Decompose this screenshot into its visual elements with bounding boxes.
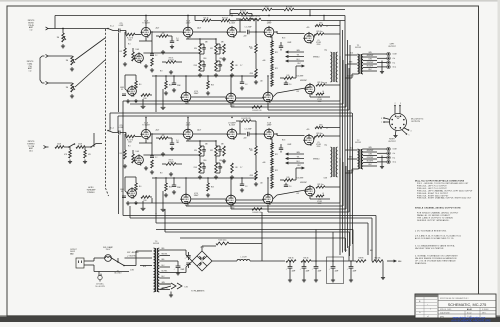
svg-text:R15 1K: R15 1K <box>203 17 208 19</box>
svg-text:S.1-2: S.1-2 <box>110 127 114 129</box>
divider resistor R49 <box>356 257 366 262</box>
resistor R6 at V1C <box>135 81 142 89</box>
resistor R44 <box>223 146 226 156</box>
svg-text:15K: 15K <box>235 167 238 169</box>
coupling capacitor C2 <box>150 54 158 57</box>
wire feedback loop R4 <box>268 170 349 212</box>
wire feedback loop L1 <box>123 56 340 104</box>
svg-text:R12: R12 <box>210 150 213 152</box>
ground below R33 <box>123 164 127 168</box>
driver tube V8B <box>262 193 273 205</box>
title block revision table <box>415 294 438 318</box>
svg-text:+26V: +26V <box>243 137 247 139</box>
cathode resistor R22 <box>165 76 172 89</box>
svg-text:WHT: WHT <box>297 63 300 65</box>
cathode resistor R34 <box>132 154 138 163</box>
fuse F1 10 amp 250V <box>103 246 114 261</box>
voltage callouts L <box>128 27 319 108</box>
resistor R105 250K <box>76 144 85 149</box>
svg-text:50 - 60 CPS: 50 - 60 CPS <box>95 286 105 288</box>
tube V6A 12AU7 <box>182 121 193 140</box>
wire V1 column L <box>125 32 152 53</box>
resistor R36 at V1C <box>135 183 142 191</box>
svg-text:40MF: 40MF <box>353 271 357 273</box>
svg-text:C.8: C.8 <box>245 84 247 86</box>
svg-text:0.5MF: 0.5MF <box>119 25 124 27</box>
wire R kt88 links <box>309 134 340 199</box>
divider resistor R46 <box>286 257 296 262</box>
resistor R132 <box>262 6 272 10</box>
svg-text:BLU: BLU <box>162 276 165 278</box>
wire stereo junction <box>93 133 95 147</box>
svg-text:ORN/WHT: ORN/WHT <box>367 62 374 64</box>
divider resistor R40 with cap <box>194 146 206 156</box>
decoupling capacitor C34 <box>170 138 179 145</box>
wire dividers L <box>186 37 216 61</box>
resistor R44 500 ohm 5W <box>216 239 229 245</box>
svg-text:COM: COM <box>393 54 398 56</box>
svg-text:C.7: C.7 <box>240 65 243 67</box>
svg-text:220K: 220K <box>143 98 147 100</box>
svg-text:V.5: V.5 <box>317 142 319 144</box>
svg-text:-52V: -52V <box>296 193 299 195</box>
svg-text:47K: 47K <box>162 33 165 35</box>
wire T3 to bridge <box>170 250 192 273</box>
svg-text:R.16 27K 1W: R.16 27K 1W <box>242 118 252 120</box>
resistor R9 47K 1W <box>162 57 182 63</box>
ground rail drops R <box>141 201 166 212</box>
svg-text:68K: 68K <box>205 144 208 146</box>
svg-text:BRN: BRN <box>349 62 352 64</box>
svg-text:WHT: WHT <box>368 69 371 71</box>
wire J3 to R103 <box>51 82 73 84</box>
svg-text:BLK/WHT: BLK/WHT <box>367 66 374 68</box>
svg-text:C.6: C.6 <box>289 186 292 188</box>
ground under R18 <box>254 80 258 84</box>
coupling capacitor C32 <box>150 156 158 159</box>
svg-text:68K: 68K <box>205 42 208 44</box>
svg-text:R.4: R.4 <box>128 146 131 148</box>
grid stopper R50 <box>315 132 324 137</box>
wire risers L <box>156 75 163 112</box>
svg-text:25MF: 25MF <box>177 85 181 87</box>
junction dots top rail <box>145 15 324 16</box>
resistor R39 47K 1W <box>162 159 182 165</box>
resistor R106 <box>64 147 71 158</box>
svg-text:R.44 500Ω: R.44 500Ω <box>218 239 227 242</box>
svg-text:OUTPUT: OUTPUT <box>388 46 396 48</box>
wire bridge top feed <box>202 246 216 251</box>
socket pin leads top <box>395 106 400 114</box>
wire B+ bus 4 <box>347 40 349 248</box>
cathode cap C37 <box>172 178 181 189</box>
socket pin dots lower right <box>406 129 412 136</box>
phase inverter V3B <box>225 92 236 104</box>
svg-text:40MF: 40MF <box>335 271 339 273</box>
svg-text:GRN/WHT: GRN/WHT <box>300 182 307 184</box>
svg-text:S.2: S.2 <box>117 271 120 273</box>
svg-text:C.6: C.6 <box>289 84 292 86</box>
wire bias feed 1 <box>262 212 349 261</box>
divider resistor R11 with cap <box>193 61 205 71</box>
divider resistor R10 with cap <box>194 44 206 54</box>
bias arrows to socket R <box>286 152 304 164</box>
filament center tap ground <box>169 292 173 298</box>
choke L5 parasitic <box>316 193 324 197</box>
tube V2A 12AU7 <box>182 19 193 38</box>
svg-text:270K: 270K <box>193 167 197 169</box>
svg-text:S.1-1: S.1-1 <box>110 25 114 27</box>
capacitor C8 tail <box>240 76 248 90</box>
power switch S2 BLO-HLO <box>112 258 125 275</box>
svg-text:BLK/WHT: BLK/WHT <box>367 161 374 163</box>
grounds below coupling L <box>150 68 154 72</box>
switch S1-3 <box>64 143 75 148</box>
feedback resistor chain L <box>271 40 278 86</box>
wire B+ bus 1 <box>339 21 341 256</box>
svg-text:M-2143: M-2143 <box>355 142 361 144</box>
socket pin dots left <box>381 117 385 124</box>
svg-text:68K: 68K <box>221 42 224 44</box>
svg-text:R49 8K: R49 8K <box>358 257 363 259</box>
wire V2A plate L <box>188 16 227 33</box>
ground below R101 <box>61 44 65 48</box>
svg-text:R.8: R.8 <box>160 173 163 175</box>
svg-text:R22: R22 <box>275 68 278 70</box>
svg-text:R19: R19 <box>287 75 290 77</box>
resistor R53 tail <box>206 178 214 197</box>
output transformer T.2 unity coupled windings <box>324 144 338 180</box>
T.2 secondary tap wires <box>363 147 377 166</box>
svg-text:TO FILAMENTS: TO FILAMENTS <box>191 290 205 293</box>
svg-text:BLK: BLK <box>370 250 373 252</box>
svg-text:R.9 1K: R.9 1K <box>169 159 174 161</box>
wire J1 to selector <box>51 28 109 30</box>
svg-text:R21: R21 <box>275 154 278 156</box>
svg-text:YEL: YEL <box>297 157 300 159</box>
wire top rail main <box>55 16 345 29</box>
svg-text:40MF: 40MF <box>318 271 322 273</box>
label acro twin amp stereo <box>87 186 97 194</box>
selector switch S1-1 <box>107 25 117 30</box>
title text schematic MC-275 <box>448 302 487 307</box>
svg-text:220K: 220K <box>143 200 147 202</box>
phase inverter V7A 12BH7 <box>226 122 237 140</box>
svg-text:a1: a1 <box>427 316 429 318</box>
svg-text:R.14: R.14 <box>249 149 252 151</box>
phase inverter V3A 12BH7 <box>226 20 237 38</box>
title block frame <box>415 294 496 318</box>
svg-text:R12: R12 <box>210 48 213 50</box>
RIGHT OUTPUT terminal strip <box>377 139 397 164</box>
wire to T3 primary <box>118 251 152 266</box>
title block field text <box>440 297 489 318</box>
svg-text:BLU: BLU <box>350 53 353 55</box>
svg-text:47K: 47K <box>162 135 165 137</box>
rectifier bridge CR1 <box>192 247 212 271</box>
svg-text:+440: +440 <box>262 162 266 164</box>
svg-text:+440: +440 <box>262 60 266 62</box>
tube V6B 12AU7 <box>180 193 198 205</box>
filter capacitor C50 80MF <box>174 266 185 271</box>
wire mid rails <box>110 113 352 133</box>
input jack J2 <box>42 54 51 57</box>
svg-text:COM: COM <box>393 149 398 151</box>
svg-text:R50 10K: R50 10K <box>375 257 381 259</box>
svg-text:T.2: T.2 <box>357 140 360 142</box>
svg-text:BLU: BLU <box>162 265 165 267</box>
filter capacitors C51-C55 with grounds <box>286 260 357 282</box>
resistor R104 500K <box>55 144 64 149</box>
switch S1-4 <box>85 144 102 148</box>
wire bias feed 3 <box>315 230 317 262</box>
svg-text:6550: 6550 <box>317 44 321 46</box>
svg-text:C.7: C.7 <box>240 167 243 169</box>
choke L4 parasitic <box>316 91 324 95</box>
svg-text:GRY • BLK/RED: GRY • BLK/RED <box>127 252 140 254</box>
cathode cap C33 at V1C <box>122 196 126 197</box>
output tube V8 KT88 lower <box>304 185 322 205</box>
wire J2 to R102 <box>51 55 73 57</box>
divider resistor R42 with cap <box>210 146 222 156</box>
svg-text:R10: R10 <box>194 150 197 152</box>
resistor R15 <box>231 61 238 71</box>
resistor R18 <box>249 69 257 78</box>
wire lower bus 2 <box>130 218 372 261</box>
voltage callouts R <box>128 129 319 210</box>
junction dots L <box>145 15 277 77</box>
octal socket MC outlet <box>390 114 407 131</box>
svg-text:COL/WHT: COL/WHT <box>297 76 304 78</box>
svg-text:C25: C25 <box>120 23 123 25</box>
svg-text:V.5: V.5 <box>317 40 319 42</box>
output transformer T.1 unity coupled windings <box>324 49 338 85</box>
svg-text:R23: R23 <box>211 187 214 189</box>
svg-text:C.2: C.2 <box>155 55 158 57</box>
resistor R47 <box>250 146 257 155</box>
svg-text:BLU: BLU <box>297 161 300 163</box>
plate resistor R46 27K <box>236 118 256 123</box>
svg-text:C.5 .25MF: C.5 .25MF <box>244 129 251 131</box>
svg-text:-52V: -52V <box>296 91 299 93</box>
phase inverter V7B <box>225 194 236 206</box>
driver tube V4A 12BH7 <box>263 19 274 38</box>
plate resistor R33 <box>120 150 127 159</box>
svg-text:DWN J.E. CHKD: DWN J.E. CHKD <box>440 309 452 311</box>
screen wires to kt88 R <box>296 165 304 180</box>
svg-text:KT-88/: KT-88/ <box>316 144 321 146</box>
svg-text:R.2 4.7K: R.2 4.7K <box>127 38 133 40</box>
wire lower bus 4 <box>156 230 353 262</box>
svg-text:68K: 68K <box>221 144 224 146</box>
socket pin leads lower right <box>402 128 409 134</box>
svg-text:GRN: GRN <box>296 152 299 154</box>
svg-text:YEL: YEL <box>297 55 300 57</box>
svg-text:R22: R22 <box>275 170 278 172</box>
capacitor can box <box>327 257 344 284</box>
svg-text:44(.)V: 44(.)V <box>197 129 201 131</box>
ganged switch dashed line <box>106 29 109 196</box>
svg-text:SHT 1: SHT 1 <box>482 312 486 314</box>
wire R103 wiper up <box>75 60 105 87</box>
resistor R35 below C2 <box>151 160 154 168</box>
power transformer T3 <box>153 241 159 292</box>
resistor R116 top rail <box>221 17 230 21</box>
svg-text:1200: 1200 <box>219 58 223 60</box>
svg-text:1200: 1200 <box>219 160 223 162</box>
svg-text:BLU: BLU <box>297 59 300 61</box>
svg-text:WHT: WHT <box>297 165 300 167</box>
svg-text:R.4: R.4 <box>128 44 131 46</box>
resistor R14 <box>223 44 226 54</box>
driver tube V8A 12BH7 <box>263 121 274 140</box>
svg-text:L.1 10H: L.1 10H <box>241 257 248 259</box>
ground below R103 <box>70 94 74 98</box>
svg-text:GRN/WHT: GRN/WHT <box>367 150 374 152</box>
svg-text:C.4: C.4 <box>176 38 179 40</box>
wire B+ bus 5 <box>349 45 351 246</box>
svg-text:STEREO: STEREO <box>87 192 95 194</box>
svg-text:T.1: T.1 <box>357 45 360 47</box>
svg-text:R.6: R.6 <box>139 186 142 188</box>
label col wht R <box>297 178 304 180</box>
svg-text:16 Ω: 16 Ω <box>29 150 33 153</box>
svg-text:T.3: T.3 <box>155 241 157 243</box>
svg-text:560K: 560K <box>128 142 132 144</box>
line cord 117VAC 50-60CPS <box>95 274 105 288</box>
resistor R131 4W <box>284 6 294 10</box>
svg-text:COL/WHT: COL/WHT <box>297 178 304 180</box>
note 5 percent tolerance <box>415 229 447 232</box>
svg-text:R22: R22 <box>169 187 172 189</box>
wire R44 to bus <box>229 244 262 262</box>
wire color labels on bias drops <box>344 250 373 252</box>
divider resistor R47 <box>301 257 311 262</box>
svg-text:R.3: R.3 <box>120 51 123 53</box>
svg-text:100K: 100K <box>136 151 140 153</box>
wire L grid bus <box>151 31 183 33</box>
wire V1A plate <box>135 16 146 35</box>
wire feedback loop L4 <box>268 68 349 110</box>
svg-text:270K: 270K <box>193 65 197 67</box>
wire secondary rail <box>195 14 345 21</box>
bias arrows to socket L <box>286 50 304 62</box>
filter choke L1 10H <box>237 257 250 261</box>
svg-text:GRN/WHT: GRN/WHT <box>300 80 307 82</box>
tube V1A 12AX7 <box>140 19 150 37</box>
svg-text:WHT/BLU: WHT/BLU <box>313 57 319 59</box>
svg-text:R21: R21 <box>275 52 278 54</box>
svg-text:560K: 560K <box>128 40 132 42</box>
svg-text:.05MF: .05MF <box>287 42 291 44</box>
svg-text:2MF: 2MF <box>176 142 179 144</box>
svg-text:R.14: R.14 <box>249 47 252 49</box>
wire lower bus 3 <box>156 223 368 255</box>
svg-text:B+ 440V: B+ 440V <box>229 124 236 126</box>
svg-text:+455: +455 <box>306 129 310 131</box>
wire B+ bus 2 <box>342 30 344 253</box>
socket ground <box>393 130 397 137</box>
divider resistor R43 with cap <box>215 163 223 173</box>
svg-text:DESIRED OUTPUT IMPEDANCE.: DESIRED OUTPUT IMPEDANCE. <box>417 219 450 222</box>
ground at T.2 secondary <box>380 156 384 169</box>
capacitor C1 .05MF <box>119 23 127 32</box>
svg-text:0.5MF: 0.5MF <box>119 127 124 129</box>
wire R grid bus <box>151 133 183 135</box>
svg-text:R.3: R.3 <box>120 153 123 155</box>
svg-text:C.2: C.2 <box>155 157 158 159</box>
note matched resistors <box>415 234 461 240</box>
svg-text:WHT: WHT <box>368 164 371 166</box>
output tube V5 KT88 upper <box>303 32 321 46</box>
svg-text:100K: 100K <box>136 49 140 51</box>
cathode resistor R52 <box>165 178 172 191</box>
resistor R48 <box>249 171 257 180</box>
svg-text:2MF: 2MF <box>176 40 179 42</box>
resistor R107 <box>84 147 92 158</box>
svg-text:GRN: GRN <box>344 250 347 252</box>
svg-text:R.9 1K: R.9 1K <box>169 57 174 59</box>
svg-text:R.18: R.18 <box>282 140 285 142</box>
resistor R236 47K 1W <box>252 208 262 214</box>
cathode cap C7 <box>172 76 181 87</box>
wire lower bus 6 <box>180 238 346 252</box>
wire divider mid <box>311 260 356 262</box>
svg-text:PINS 6&8 - RIGHT CHAN BAL OUTP: PINS 6&8 - RIGHT CHAN BAL OUTPUT, RIGHT … <box>417 197 472 200</box>
svg-text:2: 2 <box>430 308 431 310</box>
svg-text:ORN/WHT: ORN/WHT <box>367 157 374 159</box>
wire feedback loop R2 <box>186 162 343 206</box>
svg-text:1200: 1200 <box>203 58 207 60</box>
svg-text:R.18: R.18 <box>282 38 285 40</box>
cathode cap C3 at V1C <box>122 94 126 95</box>
svg-text:R46 1K: R46 1K <box>288 257 293 259</box>
svg-text:R10: R10 <box>194 48 197 50</box>
plate resistor R16 27K <box>236 16 256 21</box>
svg-text:25MF: 25MF <box>177 187 181 189</box>
input jack J1 mono <box>46 27 51 30</box>
transformer T.1 secondary winding <box>355 45 363 74</box>
note dc measurements <box>415 244 455 250</box>
grid resistor R32 4.7K <box>126 133 135 144</box>
divider resistor R12 with cap <box>210 44 222 54</box>
ground below C34 <box>170 147 174 151</box>
ground V1B <box>144 64 148 68</box>
ground mid L <box>161 50 173 74</box>
grounds below cathode pair R <box>164 190 176 197</box>
wire channel left edge L <box>118 33 120 112</box>
label inputs dual <box>27 61 34 73</box>
svg-text:R131 4W: R131 4W <box>286 6 293 8</box>
resistor R115 1K top rail <box>202 17 211 21</box>
svg-text:KT-88/: KT-88/ <box>317 201 322 203</box>
wire L input rail <box>117 30 118 32</box>
wire R V3 row <box>237 121 304 171</box>
svg-text:MC(.)-75Ω OUTPUT RECEPTACLE CO: MC(.)-75Ω OUTPUT RECEPTACLE CONNECTIONS <box>415 180 465 183</box>
tube V5B 12AX7 <box>134 154 144 165</box>
svg-text:12BH7: 12BH7 <box>267 124 272 126</box>
cathode resistor R4 <box>132 52 138 61</box>
label col wht L <box>297 76 304 78</box>
svg-text:+8(.)V: +8(.)V <box>155 129 159 131</box>
wire bias feed 2 <box>332 232 334 261</box>
AC outlet 500W max <box>70 249 84 268</box>
coupling capacitor C35 <box>244 129 251 137</box>
grid stopper R21 <box>316 81 325 86</box>
tube V2B 12AU7 <box>180 91 198 103</box>
screen wires to kt88 L <box>296 63 304 78</box>
svg-text:470K: 470K <box>249 175 253 177</box>
